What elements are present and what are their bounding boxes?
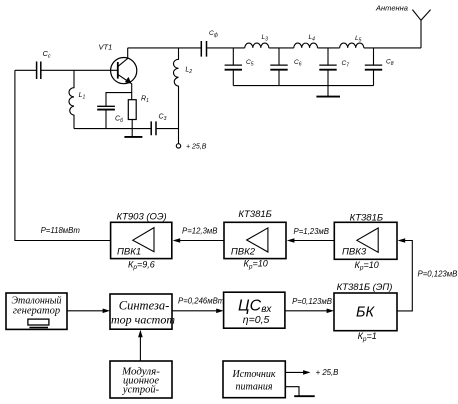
svg-text:Антенна: Антенна xyxy=(375,4,408,13)
box ПВК3 xyxy=(334,222,397,259)
svg-text:Р=118мВт: Р=118мВт xyxy=(41,226,81,235)
capacitor C6 xyxy=(278,48,280,65)
svg-text:ПВК1: ПВК1 xyxy=(117,247,141,258)
svg-text:Р=0,123мВ: Р=0,123мВ xyxy=(418,270,458,279)
svg-text:БК: БК xyxy=(356,305,375,321)
amp triangle ПВК1 xyxy=(133,228,154,252)
inductor L4 xyxy=(294,43,318,48)
svg-text:Источник: Источник xyxy=(231,369,275,380)
svg-text:тор частот: тор частот xyxy=(111,312,175,326)
wire R1 to rail xyxy=(131,120,133,129)
wire input to capacitor Cс xyxy=(15,69,36,71)
box Эталонный генератор xyxy=(6,293,67,329)
arrow Модуляционное to Синтезатор xyxy=(139,336,141,361)
antenna xyxy=(412,10,430,48)
capacitor C3 xyxy=(151,121,156,135)
wire emitter to Cб xyxy=(106,93,132,106)
svg-text:питания: питания xyxy=(236,382,273,393)
wire collector rail xyxy=(128,47,201,49)
emitter arrowhead xyxy=(125,77,132,84)
transistor VT1 xyxy=(111,58,137,84)
svg-text:η=0,5: η=0,5 xyxy=(243,314,270,326)
arrow Синтезатор to ЦСвх xyxy=(172,310,217,312)
svg-text:Р=12,3мВ: Р=12,3мВ xyxy=(182,226,217,235)
box Источник питания xyxy=(223,361,285,398)
crystal symbol xyxy=(28,319,49,325)
capacitor Cб xyxy=(97,105,115,107)
svg-text:устрой-: устрой- xyxy=(122,384,160,395)
svg-text:КТ381Б: КТ381Б xyxy=(238,209,271,220)
capacitor Cс xyxy=(37,62,41,80)
ground filter xyxy=(327,86,329,97)
inductor L2 choke xyxy=(174,48,179,144)
terminal +25V xyxy=(176,144,180,148)
wire Cб to rail xyxy=(105,110,107,128)
svg-text:+ 25,В: + 25,В xyxy=(186,144,207,151)
capacitor C8 xyxy=(373,48,375,65)
resistor R1 xyxy=(128,100,136,120)
ground источник питания xyxy=(285,387,299,396)
svg-text:КТ381Б (ЭП): КТ381Б (ЭП) xyxy=(337,282,393,293)
svg-text:VT1: VT1 xyxy=(99,43,113,52)
wire Cс to base VT1 xyxy=(42,69,118,71)
arrow +25V output xyxy=(285,371,304,373)
amp triangle ПВК2 xyxy=(247,228,268,252)
arrow ЦСвх to БК xyxy=(285,310,327,312)
wire L4 to L5 xyxy=(318,47,340,49)
inductor L5 xyxy=(340,43,364,48)
box Модуляционное устройство xyxy=(110,361,172,398)
wire filter bottom rail xyxy=(233,85,373,87)
amp triangle ПВК3 xyxy=(357,228,378,252)
inductor L3 xyxy=(245,43,269,48)
wire L3 to L4 xyxy=(269,47,294,49)
svg-text:генератор: генератор xyxy=(13,306,60,317)
svg-text:Р=0,123мВ: Р=0,123мВ xyxy=(292,297,332,306)
svg-text:+ 25,В: + 25,В xyxy=(316,368,339,377)
wire L5 to antenna xyxy=(364,47,421,49)
box ПВК1 xyxy=(111,222,172,258)
wire output ПВК1 to input network xyxy=(15,70,111,240)
wire bottom rail left xyxy=(74,128,151,130)
box Синтезатор частот xyxy=(110,294,172,329)
svg-text:ПВК2: ПВК2 xyxy=(231,247,256,258)
capacitor Cф xyxy=(201,41,206,57)
ground below R1 xyxy=(131,129,133,137)
svg-text:КТ903 (ОЭ): КТ903 (ОЭ) xyxy=(117,212,167,223)
arrow ПВК2 to ПВК1 xyxy=(176,240,224,242)
wire БК to ПВК3 xyxy=(397,241,412,311)
wire Cф to L3 xyxy=(207,47,245,49)
capacitor C7 xyxy=(327,48,329,65)
inductor L1 xyxy=(69,70,74,128)
wire C3 to +25V node xyxy=(157,128,179,130)
svg-text:ПВК3: ПВК3 xyxy=(342,247,367,258)
arrow ПВК3 to ПВК2 xyxy=(290,240,334,242)
box БК xyxy=(334,293,397,331)
arrow Эталонный to Синтезатор xyxy=(67,310,103,312)
svg-text:Синтеза-: Синтеза- xyxy=(119,299,170,313)
box ПВК2 xyxy=(224,222,286,258)
svg-text:КТ381Б: КТ381Б xyxy=(350,213,383,224)
svg-text:Р=1,23мВ: Р=1,23мВ xyxy=(294,227,329,236)
box ЦСвх xyxy=(224,292,285,328)
svg-text:Р=0,246мВт: Р=0,246мВт xyxy=(178,296,225,305)
capacitor C5 xyxy=(232,48,234,65)
